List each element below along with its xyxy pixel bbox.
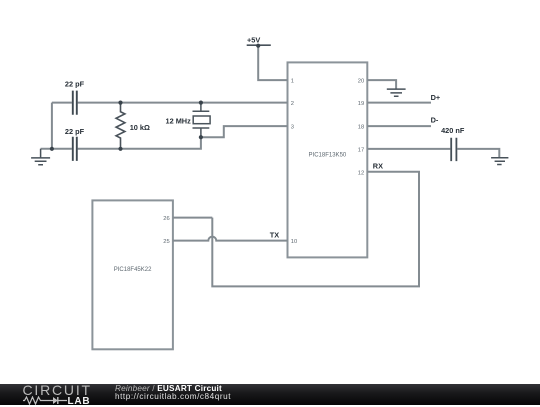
svg-text:2: 2 — [291, 101, 294, 107]
node junction dot crystal top — [199, 101, 203, 105]
svg-text:17: 17 — [358, 147, 364, 153]
svg-text:TX: TX — [270, 231, 279, 240]
wire +5V to pin1 — [258, 46, 287, 80]
capacitor C3 420nF plates — [451, 138, 456, 161]
svg-text:3: 3 — [291, 125, 294, 131]
node +5V junction dot — [256, 44, 260, 48]
IC U2 PIC18F45K22 body — [92, 200, 172, 349]
svg-text:26: 26 — [163, 216, 169, 222]
svg-text:18: 18 — [358, 125, 364, 131]
wire left net bottom (ground rail) — [41, 137, 201, 149]
svg-text:12: 12 — [358, 170, 364, 176]
svg-text:420 nF: 420 nF — [441, 126, 465, 135]
capacitor C2 22pF plates — [73, 137, 77, 161]
node junction dot ground rail left — [50, 147, 54, 151]
svg-text:1: 1 — [291, 79, 294, 85]
wire crystal to pin3 — [201, 126, 288, 137]
svg-text:25: 25 — [163, 239, 169, 245]
wire pin17 to C3 to ground — [367, 149, 499, 158]
resistor R1 10k zigzag — [116, 103, 125, 149]
wire left vertical — [51, 103, 53, 149]
svg-text:12 MHz: 12 MHz — [165, 117, 191, 126]
crystal X1 12MHz — [193, 103, 211, 138]
svg-text:10: 10 — [291, 239, 297, 245]
svg-text:D+: D+ — [431, 93, 441, 102]
svg-text:10 kΩ: 10 kΩ — [130, 123, 150, 132]
IC U1 PIC18F13K50 body — [288, 62, 368, 257]
logo LAB text — [68, 397, 91, 406]
svg-text:PIC18F13K50: PIC18F13K50 — [309, 153, 347, 159]
footer url line — [115, 393, 231, 402]
svg-text:D-: D- — [431, 115, 439, 124]
ground G3 right — [491, 158, 508, 165]
svg-text:22 pF: 22 pF — [65, 80, 85, 89]
node junction dot resistor top — [118, 101, 122, 105]
wire pin20 to ground — [367, 80, 396, 89]
capacitor C1 22pF plates — [73, 91, 77, 115]
svg-text:19: 19 — [358, 101, 364, 107]
power +5V symbol — [247, 44, 271, 46]
node junction dot crystal bottom — [199, 135, 203, 139]
ground G2 pin20 — [387, 89, 406, 96]
wire pin19 D+ — [367, 102, 431, 104]
logo CIRCUIT text — [23, 382, 92, 398]
logo resistor-diode glyph — [23, 396, 68, 405]
svg-text:PIC18F45K22: PIC18F45K22 — [114, 267, 152, 273]
wire TX net pin25 to pin10 with hop — [173, 237, 288, 241]
footer title line — [115, 385, 222, 394]
svg-text:+5V: +5V — [247, 36, 260, 45]
node junction dot resistor bottom — [118, 147, 122, 151]
wire pin18 D- — [367, 125, 431, 127]
wire RX net pin12 to pin26 — [173, 172, 419, 287]
svg-text:RX: RX — [373, 161, 383, 170]
svg-text:22 pF: 22 pF — [65, 127, 85, 136]
footer bar — [0, 384, 540, 405]
svg-text:20: 20 — [358, 79, 364, 85]
wire left net top (pin2) — [52, 102, 288, 104]
ground G1 left — [31, 149, 50, 165]
